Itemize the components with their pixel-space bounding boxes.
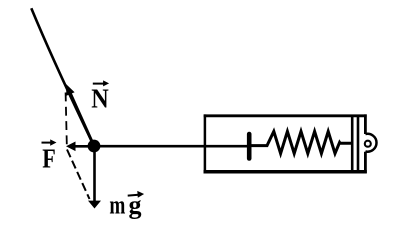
vector F shaft [74, 145, 94, 148]
scale plate line 2 [357, 116, 360, 172]
node: point mass (dot) [88, 140, 101, 153]
svg-text:F: F [42, 144, 56, 174]
vector N shaft [70, 92, 95, 147]
label F with vector arrow [42, 139, 57, 173]
scale plate line 1 [351, 116, 354, 172]
dynamometer box right edge (interrupted by lug) [364, 114, 367, 173]
rod (inclined cord) [31, 8, 94, 146]
dynamometer box outline (left, top, bottom edges) [204, 114, 367, 117]
hanging lug (bulge) on right of box [365, 134, 376, 152]
label N with vector arrow [91, 80, 109, 113]
spring (zigzag) [252, 131, 353, 153]
dashed construction line from F tip to mg tip [67, 150, 90, 200]
vector mg shaft [93, 146, 96, 202]
vector mg arrowhead [88, 201, 101, 209]
svg-text:N: N [91, 84, 109, 114]
vector N arrowhead [66, 84, 75, 96]
wire: horizontal link from mass to dynamometer plate [94, 145, 248, 148]
piston plate bar [247, 134, 252, 159]
svg-text:m: m [109, 191, 125, 220]
ring hole in lug [365, 141, 371, 147]
label mg with vector arrow over g [109, 191, 144, 220]
vector F arrowhead [66, 142, 76, 152]
dashed construction line from N tip to F tip [66, 93, 67, 145]
